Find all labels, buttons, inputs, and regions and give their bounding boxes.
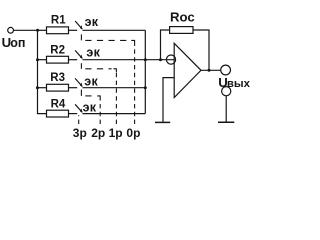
wire input terminal to bus [14,29,38,31]
resistor R4 [47,110,69,117]
wire Roc to output node [193,30,209,70]
svg-text:3р: 3р [73,126,87,140]
switch эк 3 lever [75,78,82,86]
node junction row2 left [36,58,39,61]
wire bus to R2 [38,59,47,61]
wire input bus vertical [38,30,47,113]
resistor R2 [47,56,69,63]
svg-text:эк: эк [85,15,99,29]
ground (output) [218,121,234,123]
svg-text:оп: оп [10,36,25,50]
switch эк 2 lever [75,50,82,58]
wire summing bus right vertical [144,30,146,113]
node junction row2 right [144,58,147,61]
wire op-amp output [201,69,221,71]
label 2р [91,126,105,140]
wire R2 to switch 2 [69,59,78,61]
wire R4 to switch 4 [69,113,78,115]
wire summing bus to op-amp input [145,59,174,61]
wire lower terminal to ground [225,96,227,122]
svg-text:R2: R2 [50,44,65,56]
wire bus to R1 [38,29,47,31]
control line 0p dashed [81,34,134,124]
control line 2p dashed [81,90,100,124]
svg-text:эк: эк [83,101,97,115]
wire switch 1 to right bus [83,29,146,31]
svg-text:R1: R1 [51,14,66,26]
wire switch 4 to right bus [83,113,146,115]
svg-text:1р: 1р [109,126,123,140]
svg-text:R4: R4 [51,99,66,111]
wire R1 to switch 1 [69,29,78,31]
svg-text:Rос: Rос [170,9,195,24]
lower output terminal [222,87,231,96]
label 3р [73,126,87,140]
op-amp U1 [174,43,201,97]
wire feedback left vertical [161,30,170,60]
svg-text:R3: R3 [50,72,65,84]
label Uвых [218,75,250,90]
node junction row3 right [144,86,147,89]
node junction row3 left [36,86,39,89]
resistor R1 [47,27,69,34]
node feedback tap [159,58,162,61]
node junction row1 left [36,29,39,32]
resistor R3 [47,84,69,91]
resistor Roc [170,27,193,34]
wire R3 to switch 3 [69,87,78,89]
label 0р [126,126,140,140]
wire switch 3 to right bus [83,87,146,89]
label 1р [109,126,123,140]
switch эк 4 lever [75,104,82,112]
control line 1p dashed [81,63,116,124]
inverting input bubble [166,55,175,64]
label Uоп [2,35,26,50]
control line 3p dashed [78,115,80,124]
wire non-inverting input to ground [163,78,174,122]
input terminal Uon [8,27,14,33]
svg-text:0р: 0р [126,126,140,140]
svg-text:эк: эк [86,46,100,60]
switch эк 1 lever [75,21,82,29]
output terminal Uvyh [221,65,231,75]
svg-text:2р: 2р [91,126,105,140]
wire bus to R3 [38,87,47,89]
wire switch 2 to right bus [83,59,146,61]
svg-text:эк: эк [84,74,98,88]
ground (op-amp input) [155,121,170,123]
node output junction [208,69,211,72]
